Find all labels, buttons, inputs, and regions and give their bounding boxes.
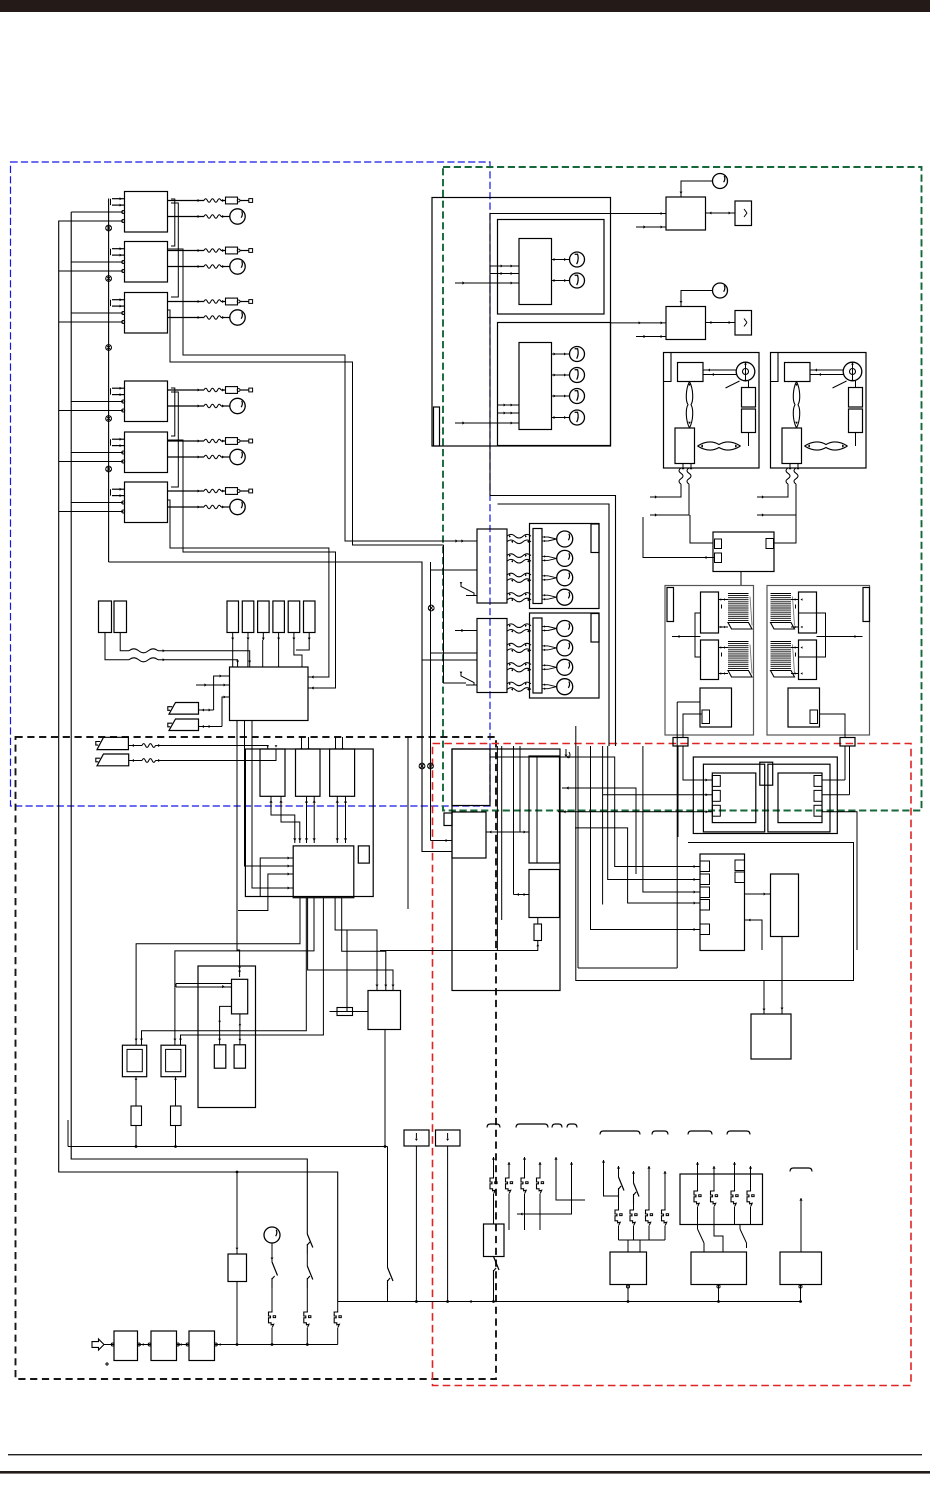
driver block <box>771 874 799 937</box>
run capacitor <box>735 201 752 226</box>
output block feed left <box>763 981 765 1015</box>
compressor unit enclosure <box>771 353 867 469</box>
heater contactor <box>788 688 820 727</box>
phase bus <box>215 1344 338 1346</box>
wire <box>59 410 124 412</box>
indicator driver IC2 <box>519 343 552 430</box>
A6 output line 1 <box>168 490 205 492</box>
heater element 1 <box>771 594 792 623</box>
fan timer dial <box>713 283 728 298</box>
solenoid bank enclosure <box>530 524 600 609</box>
distribution bus with junction symbols <box>108 199 110 563</box>
run capacitor C2 <box>742 409 756 433</box>
processor tab <box>700 887 710 898</box>
interface bridge <box>760 762 773 785</box>
control unit A4 <box>125 381 168 422</box>
junction symbol <box>106 276 112 282</box>
load 3 riser <box>799 1198 802 1201</box>
wire K1 jog <box>232 640 234 667</box>
motor M2 <box>230 259 245 274</box>
wire <box>496 930 498 951</box>
connector bracket <box>600 1131 640 1135</box>
supply column <box>507 1162 510 1165</box>
wire <box>748 381 750 388</box>
module A feed 1 <box>706 779 708 782</box>
A1 output line 2 <box>168 216 205 218</box>
lower unit frame <box>576 726 854 981</box>
connector bracket <box>652 1131 668 1135</box>
bank bracket <box>695 613 701 657</box>
interface module B <box>778 773 822 823</box>
ground mark <box>105 1363 109 1365</box>
fuse <box>646 1209 651 1225</box>
enclosure tab <box>434 407 440 446</box>
igniter transformer T3 <box>122 1045 146 1077</box>
enclosure tab <box>664 353 672 382</box>
wire <box>59 321 124 323</box>
wire <box>71 261 123 263</box>
fuse <box>615 1209 620 1225</box>
connector plug P4 <box>97 754 129 766</box>
harness wire 1 <box>562 757 700 867</box>
link D <box>514 894 530 896</box>
fan timer dial <box>713 174 728 189</box>
filter links <box>104 1344 114 1346</box>
line filter block 2 <box>151 1331 177 1361</box>
harness wire 3 <box>575 828 700 903</box>
wire bus to relay column <box>109 562 452 852</box>
heater element 2 <box>728 642 749 671</box>
main control board PCB1 <box>230 667 309 721</box>
door switch <box>494 1257 500 1271</box>
terminal box TB1 <box>404 1130 429 1146</box>
fuse link FL2 <box>304 1311 309 1327</box>
motor M3 <box>230 310 245 325</box>
relay bank K1-K6 <box>227 601 239 633</box>
load 1 riser C with switch <box>632 1171 635 1174</box>
wire <box>855 433 857 447</box>
supply wire 1 <box>650 484 681 497</box>
run capacitor C2 <box>849 409 863 433</box>
load 2 switch A <box>697 1225 699 1230</box>
compressor relay <box>785 363 811 382</box>
valve coil pair 2 <box>507 554 531 558</box>
solenoid S1 <box>214 1045 226 1068</box>
P3 lead with coil <box>128 745 142 747</box>
P4 lead with coil <box>129 760 142 762</box>
supply column <box>523 1157 526 1160</box>
clock lead <box>271 1243 273 1262</box>
thermal fuse F4a <box>226 387 238 394</box>
cascade wire A3 down <box>168 310 444 545</box>
valve coil pair 3 <box>507 573 531 577</box>
harness wire 2 <box>562 788 636 874</box>
fan 1 input arrow <box>661 212 663 215</box>
display wrapper frame <box>490 214 666 496</box>
signal column 3 <box>513 746 515 895</box>
bank switch input <box>461 582 474 596</box>
wire K4 to main board <box>278 640 280 667</box>
lead coil 1 <box>786 468 790 484</box>
terminal X1 <box>249 199 253 203</box>
module B tab <box>814 790 822 801</box>
valve motor 2 <box>542 645 548 647</box>
lead coil 2 <box>687 468 691 484</box>
start device leads <box>682 464 684 469</box>
page footer thick rule <box>0 1471 930 1474</box>
interface module A <box>712 773 756 823</box>
gas valve driver <box>232 979 248 1014</box>
wire <box>308 633 310 641</box>
block B feeds <box>430 653 432 841</box>
PCB1 input stub <box>196 684 230 686</box>
A2 output line 2 <box>168 266 205 268</box>
load 1 riser A <box>602 1160 605 1163</box>
PCB2 output to igniter 1a <box>136 898 300 1045</box>
switch SW2b <box>307 1266 313 1280</box>
control unit A5 <box>125 432 168 473</box>
drain motor block DM1 <box>780 1252 822 1285</box>
enclosure tab <box>771 353 779 382</box>
TB2 drop <box>447 1146 449 1302</box>
T2 riser <box>849 746 851 795</box>
sensor R2 lead with coil <box>120 633 129 651</box>
bank bracket <box>799 613 826 657</box>
valve motor 1 <box>542 536 548 538</box>
valve motor 2 <box>542 555 548 557</box>
enclosure tab <box>591 524 599 553</box>
start device <box>675 428 695 464</box>
DM1 output <box>799 1285 802 1288</box>
harness wire 8 <box>608 746 700 880</box>
aux relay leads <box>236 1172 238 1254</box>
run capacitor C1 <box>849 388 863 408</box>
section drop 1 <box>677 701 700 703</box>
valve motor 3 <box>542 664 548 666</box>
A2 output line 1 <box>168 250 205 252</box>
PCB2 output to igniter 2b <box>181 898 324 1045</box>
A4 output line 2 <box>168 405 205 407</box>
element links <box>791 647 799 649</box>
signal column 2 <box>501 746 503 920</box>
T3 fuse <box>135 1077 137 1106</box>
valve coil pair 1 <box>507 534 531 538</box>
contactor wire <box>820 714 846 738</box>
relay output stub <box>740 572 742 586</box>
A3 output line 2 <box>168 317 205 319</box>
cascade wire A4-A6 <box>171 392 178 487</box>
wire <box>301 737 303 749</box>
line filter block 3 <box>189 1331 215 1361</box>
valve feed vertical <box>444 545 467 683</box>
cascade wire A1-A2 <box>171 199 175 246</box>
valve coil pair 2 <box>507 643 531 647</box>
load 2 risers <box>696 1162 699 1165</box>
wire K6 jog <box>296 640 309 650</box>
wire <box>748 433 750 447</box>
motor M4 <box>230 398 245 413</box>
display sub-box 2 <box>498 323 611 446</box>
module A feed 3 <box>558 811 712 813</box>
P1 riser <box>214 676 230 710</box>
harness wire 5 <box>591 746 701 930</box>
thermal fuse F6a <box>226 488 238 495</box>
control unit A6 <box>125 482 168 523</box>
module A tab <box>712 805 720 816</box>
timer clock <box>264 1227 280 1243</box>
bank switch input <box>461 672 474 686</box>
terminal X6 <box>249 489 253 493</box>
bank input arrow <box>455 540 477 542</box>
processor tab right <box>735 860 745 871</box>
terminal strip <box>533 618 542 693</box>
element links <box>719 599 729 601</box>
module B tab <box>814 776 822 787</box>
interface sub-box A <box>703 764 764 832</box>
terminal strip <box>533 529 542 604</box>
main bus <box>338 1301 802 1303</box>
valve coil pair 1 <box>507 624 531 628</box>
motor supply pair <box>810 369 843 371</box>
element links <box>719 647 729 649</box>
T4 fuse <box>175 1077 177 1106</box>
harness wire 6 <box>602 746 604 905</box>
lamp H1 <box>552 259 570 261</box>
PCB2 output to igniter 2a <box>175 898 314 1045</box>
driver twin feed <box>176 983 232 985</box>
bank input arrow <box>455 630 477 632</box>
valve coil pair 4 <box>507 593 531 597</box>
run capacitor <box>735 311 752 336</box>
thermal fuse F2a <box>226 247 238 254</box>
enclosure tab <box>591 614 599 643</box>
fuse <box>662 1209 667 1225</box>
pump motor block PM1 <box>691 1252 747 1285</box>
switch SW2a <box>307 1234 313 1248</box>
PM1 output <box>717 1285 720 1288</box>
supply column 6 <box>570 1162 573 1165</box>
fuse F10 <box>537 918 539 925</box>
IC2 input wires <box>498 404 520 406</box>
terminal interface box <box>693 757 837 834</box>
fuse link FL1 <box>269 1311 274 1327</box>
A1 input pins <box>112 198 125 200</box>
wire <box>706 322 736 324</box>
load 2 fuse box <box>680 1174 763 1225</box>
door switch block <box>484 1224 505 1257</box>
left supply bus 1 <box>71 212 307 1234</box>
wire <box>262 633 264 641</box>
thermal fuse F1a <box>226 197 238 204</box>
lead coil 2 <box>794 468 798 484</box>
PCB2 left pin 1 <box>260 858 293 897</box>
valve motor 3 <box>542 575 548 577</box>
valve coil pair 4 <box>507 682 531 686</box>
harness wire 7 <box>643 746 700 892</box>
heater control relay 1 <box>701 592 719 633</box>
overload protector <box>793 382 796 429</box>
wire <box>71 502 123 504</box>
controller block B2 <box>452 812 486 858</box>
wire K3 to main board <box>262 640 264 667</box>
compressor relay <box>678 363 704 382</box>
changeover relay K10 <box>713 532 774 572</box>
connector bracket <box>790 1168 812 1172</box>
A4 input pins <box>112 387 125 389</box>
start device <box>782 428 802 464</box>
compressor motor <box>843 362 862 381</box>
A2 input pins <box>112 248 125 250</box>
PCB2 aux module <box>358 846 369 863</box>
module B wire 3 <box>822 812 857 950</box>
wire <box>342 737 344 749</box>
compressor 2 wire to relay <box>774 515 797 543</box>
wire K5 jog <box>294 640 302 667</box>
supply column <box>492 1157 495 1160</box>
ignition block feed 1 <box>335 898 377 991</box>
return bus drop <box>387 1147 389 1268</box>
wire <box>636 336 666 338</box>
load 1 riser B with switch <box>617 1166 620 1169</box>
wire <box>335 737 337 749</box>
heater element 1 <box>728 594 749 623</box>
A5 output line 2 <box>168 456 205 458</box>
wire <box>59 461 124 463</box>
lead coil 1 <box>679 468 683 484</box>
module B tab <box>814 805 822 816</box>
wire <box>855 381 857 388</box>
harness drop glyph <box>565 749 567 755</box>
A5 input pins <box>112 438 125 440</box>
blue dashed group box (indoor control section) <box>11 162 491 806</box>
aux relay <box>228 1254 247 1282</box>
fan control unit <box>666 307 706 340</box>
relay feed wire <box>643 517 715 558</box>
heater element 2 <box>771 642 792 671</box>
fuse <box>630 1209 635 1225</box>
run capacitor C1 <box>742 388 756 408</box>
wire <box>247 633 249 641</box>
fuse F11 <box>346 930 348 1012</box>
feed-through connector T1 <box>673 738 688 747</box>
relay board link 2 <box>306 796 308 843</box>
processor tab <box>700 900 710 911</box>
connector brackets row 1 <box>487 1124 500 1128</box>
solenoid bank enclosure <box>530 613 600 698</box>
load 2 switch B <box>739 1225 741 1230</box>
supply wire 2 <box>757 484 796 515</box>
terminal X5 <box>249 439 253 443</box>
cascade wire A4-A5 <box>171 388 175 436</box>
lamp L2 <box>552 374 570 376</box>
connector plug P2 <box>169 719 199 731</box>
cascade wire A5 down to main board <box>168 440 336 688</box>
relay board link 3 <box>336 796 338 843</box>
connector plug P1 <box>169 703 199 715</box>
compressor unit enclosure <box>664 353 760 469</box>
motor lever <box>833 381 847 388</box>
wire <box>422 659 477 661</box>
valve motor 4 <box>542 684 548 686</box>
contactor wire <box>683 714 702 738</box>
connector bracket <box>688 1131 712 1135</box>
ignition block feed 3 <box>308 898 393 991</box>
control unit A2 <box>125 242 168 283</box>
wire <box>636 226 666 228</box>
driver output to S2 <box>239 1014 241 1045</box>
wire <box>278 633 280 641</box>
processor tab <box>700 874 710 885</box>
power entry arrow <box>92 1339 104 1350</box>
switch SW4 <box>388 1268 394 1282</box>
module A feed 2 <box>603 794 713 796</box>
A1 output line 1 <box>168 200 205 202</box>
lamp L3 <box>552 395 570 397</box>
A4 output line 1 <box>168 389 205 391</box>
section drop 2 <box>578 967 677 969</box>
register block C <box>529 756 560 863</box>
A3 input pins <box>112 299 125 301</box>
block area container <box>452 749 560 991</box>
motor M6 <box>230 499 245 514</box>
wire <box>59 511 124 513</box>
thermistor link <box>698 442 741 446</box>
indicator driver IC1 <box>519 239 552 305</box>
wire <box>59 270 124 272</box>
ignition block feed 2 <box>342 898 386 991</box>
return bus <box>68 1146 388 1148</box>
compressor 1 wire to relay <box>690 515 713 543</box>
motor M5 <box>230 449 245 464</box>
overload protector <box>686 382 689 429</box>
element links <box>791 599 799 601</box>
module B wire 1 <box>822 779 845 781</box>
relay board link 1 <box>271 796 295 843</box>
heater contactor <box>700 688 732 727</box>
terminal box TB2 <box>436 1130 461 1146</box>
main control board PCB2 <box>293 846 354 898</box>
junction symbol <box>106 225 112 231</box>
cascade wire A2 down <box>168 249 478 541</box>
wire <box>59 220 124 222</box>
relay board enclosure <box>245 749 373 897</box>
sensor R2 <box>114 601 127 633</box>
wire to solenoid bank 1 <box>431 562 478 570</box>
lamp L1 <box>552 353 570 355</box>
module A tab <box>712 790 720 801</box>
black dashed group box (power section) <box>16 737 497 1379</box>
load 1 riser D <box>647 1166 650 1169</box>
wire K2 jog <box>247 640 249 667</box>
signal column x408 <box>407 737 409 909</box>
fuse link FL3 <box>337 1302 339 1312</box>
load 1 riser E <box>663 1171 666 1174</box>
PCB2 output to igniter 1b <box>142 898 307 1045</box>
lamp L4 <box>552 417 570 419</box>
junction symbol <box>106 345 112 351</box>
supply column <box>538 1162 541 1165</box>
output block <box>751 1014 791 1059</box>
thermal fuse F5a <box>226 438 238 445</box>
P2 wire <box>199 726 223 728</box>
heater control relay 1 <box>799 592 817 633</box>
connector plug P3 <box>97 737 128 749</box>
terminal X3 <box>249 300 253 304</box>
wire <box>308 737 310 749</box>
block A feed <box>490 756 562 758</box>
wire <box>71 452 123 454</box>
wire <box>71 211 123 213</box>
